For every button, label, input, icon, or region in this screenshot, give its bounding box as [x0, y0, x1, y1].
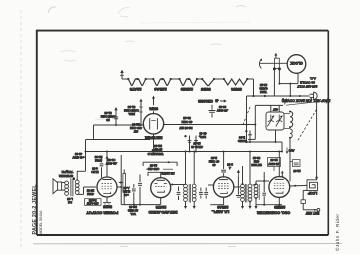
svg-text:TRIM: TRIM	[259, 90, 267, 94]
wire rectifier bottom to bus	[153, 134, 155, 153]
svg-text:47146 40: 47146 40	[191, 145, 203, 149]
svg-text:GANG: GANG	[238, 139, 246, 143]
capacitor coupling C8	[100, 158, 104, 178]
wire power tube top to bus	[105, 151, 108, 178]
switch S1 wiper arc	[259, 59, 262, 69]
wire gang top stubs	[248, 105, 283, 139]
svg-text:CHASSIS: CHASSIS	[197, 99, 212, 103]
label elec cap	[123, 186, 130, 197]
tube V1 12BE6 osc converter	[257, 177, 291, 215]
coil L osc	[254, 183, 259, 209]
svg-text:CLOCK: CLOCK	[290, 61, 303, 65]
wire ext antenna column	[315, 99, 317, 179]
resistor heater 35W4 ballast	[223, 78, 249, 92]
svg-text:CAP-120: CAP-120	[147, 167, 159, 171]
svg-text:DET-AVC-AUDIO: DET-AVC-AUDIO	[148, 210, 177, 214]
svg-text:-B: -B	[215, 99, 219, 103]
wire 2nd IF primary top to bus	[185, 151, 187, 185]
svg-text:470 OHM: 470 OHM	[129, 126, 142, 130]
svg-text:40 OHM: 40 OHM	[181, 120, 192, 124]
svg-text:150-0.5W: 150-0.5W	[86, 202, 98, 206]
svg-text:MFD: MFD	[200, 135, 206, 139]
page label PAGE 20-2 JEWEL	[32, 184, 38, 235]
svg-text:12BA6: 12BA6	[154, 87, 167, 92]
svg-text:.05-600V: .05-600V	[268, 162, 279, 166]
svg-text:12-05: 12-05	[293, 169, 301, 173]
label loop ant on back cover	[282, 98, 331, 106]
svg-text:3.2: 3.2	[68, 200, 72, 204]
capacitor detector bypass	[138, 175, 142, 205]
svg-text:12BE6: 12BE6	[180, 87, 193, 92]
copyright John F. Rider	[334, 214, 340, 251]
wire AC line	[246, 95, 310, 142]
svg-text:A-05: A-05	[123, 186, 129, 190]
svg-text:51-05: 51-05	[127, 105, 135, 109]
svg-text:467: 467	[273, 107, 278, 111]
wire power tube bottom cathode	[103, 197, 111, 205]
potentiometer volume control	[119, 170, 126, 205]
label 12-05 on ant column	[293, 169, 301, 173]
svg-text:50B5: 50B5	[200, 87, 210, 92]
wire junction row 142	[245, 141, 275, 143]
wire	[171, 78, 180, 80]
dashed lead to loop	[298, 110, 317, 141]
wire IF amp plate to 1st IF	[234, 186, 241, 188]
wire B plus bus	[86, 151, 283, 153]
coil loop antenna winding	[284, 111, 293, 139]
capacitor if out bypass	[171, 184, 186, 201]
page label MODEL 5040A	[39, 210, 43, 235]
svg-text:1/2 12AT6: 1/2 12AT6	[161, 172, 175, 176]
label volume	[128, 205, 138, 216]
label osc top parts	[251, 156, 262, 167]
label R6-05 fuse resistor	[179, 116, 192, 130]
capacitor screen top	[221, 151, 226, 177]
label trimmer	[259, 83, 267, 94]
label candohm section 2	[100, 111, 115, 122]
label half 12AT6	[161, 172, 175, 176]
wire rectifier plate to left	[86, 125, 151, 140]
switch S1 body	[274, 53, 279, 69]
svg-text:40: 40	[212, 163, 216, 167]
wire osc ground row	[256, 204, 282, 206]
label det caps	[146, 163, 173, 170]
resistor avc with arrow	[236, 170, 241, 198]
wire switch left contact down	[273, 69, 275, 96]
wire switch right contact down	[278, 69, 290, 85]
wire 1st IF secondary top to bus	[249, 151, 251, 185]
wire	[146, 78, 154, 80]
wire rectifier cathode right	[164, 124, 257, 126]
svg-text:R1-05: R1-05	[132, 122, 140, 126]
svg-text:+: +	[245, 130, 247, 134]
border frame	[37, 31, 329, 235]
svg-text:“ATI” PM: “ATI” PM	[61, 170, 73, 174]
wire gang drop to bus	[275, 130, 284, 153]
resistor heater 12AT6	[127, 78, 147, 92]
clock motor M1	[287, 55, 306, 74]
tube V2 12BA6 IF ampl	[211, 177, 233, 214]
net B- chassis	[197, 99, 226, 103]
wire heater bus segment	[122, 78, 128, 80]
wire 2nd IF secondary top to bus	[193, 151, 195, 185]
label grid resistor block	[91, 155, 117, 174]
resistor heater 50B5	[200, 78, 215, 92]
svg-text:PAGE 20-2 JEWEL: PAGE 20-2 JEWEL	[32, 184, 38, 235]
wire loop bottom to converter grid	[289, 138, 291, 182]
transformer T2 1st IF	[241, 183, 252, 203]
capacitor audio coupling	[132, 184, 136, 205]
wire IF amp cathode	[210, 197, 223, 205]
svg-text:LOOP ANT. (ON BACK COVER): LOOP ANT. (ON BACK COVER)	[282, 98, 331, 102]
label R1-05	[129, 122, 142, 133]
resistor heater 12BE6	[178, 78, 198, 92]
svg-text:470M: 470M	[86, 192, 93, 196]
loop antenna spiral	[307, 178, 318, 195]
svg-text:I.F. AMPL.: I.F. AMPL.	[211, 210, 229, 214]
capacitor avc line	[204, 188, 208, 199]
label PM speaker	[58, 170, 73, 178]
svg-text:35W4: 35W4	[149, 106, 158, 110]
capacitor C filter second section	[194, 134, 201, 152]
svg-text:+40 150V: +40 150V	[72, 155, 84, 159]
resistor candohm tap arrow	[114, 107, 118, 126]
speaker SP1	[53, 179, 62, 194]
capacitor line bypass .05-600V	[209, 105, 229, 118]
ground arrows 2nd IF	[184, 202, 196, 210]
label filter caps	[199, 132, 207, 139]
svg-text:12AT6: 12AT6	[156, 205, 167, 209]
label parts row bottom mid	[191, 142, 203, 149]
wire osc grid	[253, 181, 269, 185]
transformer T3 2nd IF	[184, 184, 197, 203]
svg-text:©John F. Rider: ©John F. Rider	[334, 214, 340, 251]
wire osc to loop	[290, 185, 307, 187]
capacitor osc grid	[262, 172, 266, 205]
svg-text:AVC: AVC	[289, 148, 295, 152]
label trimmer det	[148, 149, 164, 156]
capacitor tuning gang box	[266, 107, 284, 130]
tube V3 12AT6 det avc audio	[148, 178, 177, 214]
capacitor padder box	[290, 160, 300, 167]
svg-text:ELEC: ELEC	[91, 170, 98, 174]
transformer T1 output	[62, 177, 80, 196]
svg-text:A.C.: A.C.	[310, 77, 316, 81]
wire	[197, 78, 202, 80]
wire det plate row	[143, 161, 177, 166]
resistor heater 12BA6	[152, 78, 172, 92]
wire plate side B plus elec	[117, 155, 122, 205]
svg-text:20-05: 20-05	[270, 158, 278, 162]
svg-text:50B5: 50B5	[103, 204, 112, 208]
svg-text:56-05: 56-05	[183, 116, 191, 120]
box label 20-05 cap	[268, 158, 281, 172]
label IF amp top	[208, 156, 233, 170]
svg-text:.05-600V: .05-600V	[217, 109, 228, 113]
svg-text:.02-400V: .02-400V	[106, 161, 117, 165]
svg-text:105-125 VOLT: 105-125 VOLT	[297, 84, 317, 88]
wire transformer primary bottom to plate	[77, 187, 96, 194]
label elec cap 40-05	[72, 152, 84, 159]
dashed lead to gang	[243, 107, 250, 125]
wire B plus feed to output transformer	[77, 140, 87, 172]
tube V4 50B5 power output	[86, 177, 118, 215]
svg-text:1W: 1W	[134, 130, 139, 134]
node B- arrow at heater string start	[120, 70, 124, 79]
svg-text:470M: 470M	[94, 159, 102, 163]
svg-text:R6-05 2W: R6-05 2W	[179, 126, 192, 130]
svg-text:12BE6: 12BE6	[274, 205, 285, 209]
wire switch to clock	[260, 62, 288, 64]
svg-text:LOOP: LOOP	[307, 191, 317, 195]
svg-text:30-05: 30-05	[218, 105, 226, 109]
label plate coupling	[86, 189, 94, 196]
capacitor 2nd IF tuning right	[199, 188, 203, 199]
svg-text:60 CYCLE: 60 CYCLE	[300, 81, 315, 85]
wire osc tube bottom	[278, 197, 280, 204]
svg-text:EXT ANT: EXT ANT	[306, 211, 320, 215]
junction dots switch	[273, 67, 281, 70]
svg-text:R5-05: R5-05	[94, 155, 102, 159]
wire 1st IF primary top	[242, 166, 244, 184]
svg-text:SPEAKER: SPEAKER	[58, 174, 73, 178]
svg-text:15-25: 15-25	[259, 83, 267, 87]
wire transformer primary top	[76, 171, 78, 180]
wire ground row under audio	[121, 204, 161, 206]
svg-text:35W4: 35W4	[231, 87, 242, 92]
plug P1	[310, 92, 318, 99]
wire det tube bottom	[160, 198, 162, 205]
svg-text:R2-05: R2-05	[154, 144, 162, 148]
wire clock to line	[289, 73, 298, 96]
label under rectifier	[153, 144, 162, 152]
svg-text:VOL: VOL	[130, 212, 136, 216]
svg-text:CANDOHM: CANDOHM	[123, 109, 139, 113]
svg-text:12BA6: 12BA6	[217, 205, 228, 209]
ground arrows 1st IF	[241, 202, 252, 210]
wire rectifier top stub and arrow	[152, 96, 155, 114]
svg-text:1D: 1D	[106, 118, 110, 122]
svg-text:MODEL 5040A: MODEL 5040A	[39, 210, 43, 235]
svg-text:RES.: RES.	[128, 112, 135, 116]
svg-text:OSC. CONVERTER: OSC. CONVERTER	[257, 210, 291, 214]
svg-text:2W 20%: 2W 20%	[251, 163, 262, 167]
wire	[214, 78, 224, 80]
capacitor C B plus gang +	[238, 130, 252, 143]
svg-text:TRIMMER D: TRIMMER D	[148, 152, 164, 156]
terminal ext ant	[303, 208, 320, 215]
label output transformer	[67, 197, 73, 204]
label AC supply	[297, 77, 317, 89]
wire det tube top	[148, 172, 170, 177]
label cathode parts boxed	[85, 199, 102, 206]
tube V5 35W4 rectifier	[143, 106, 163, 139]
svg-text:12AT6: 12AT6	[129, 87, 141, 92]
faint ghost smudges (bleed-through)	[60, 41, 222, 120]
wire IF amp grid left	[208, 184, 213, 186]
wire osc tube top to bus	[278, 151, 283, 177]
net AVC label	[286, 148, 295, 155]
capacitor ant series	[301, 190, 307, 209]
svg-text:+: +	[184, 134, 186, 138]
capacitor C filter 40-40 MFD	[184, 134, 191, 152]
wire heater end to B plus junction	[247, 79, 253, 96]
svg-text:POWER OUTPUT: POWER OUTPUT	[86, 210, 118, 215]
resistor R1 candohm section	[123, 99, 142, 126]
